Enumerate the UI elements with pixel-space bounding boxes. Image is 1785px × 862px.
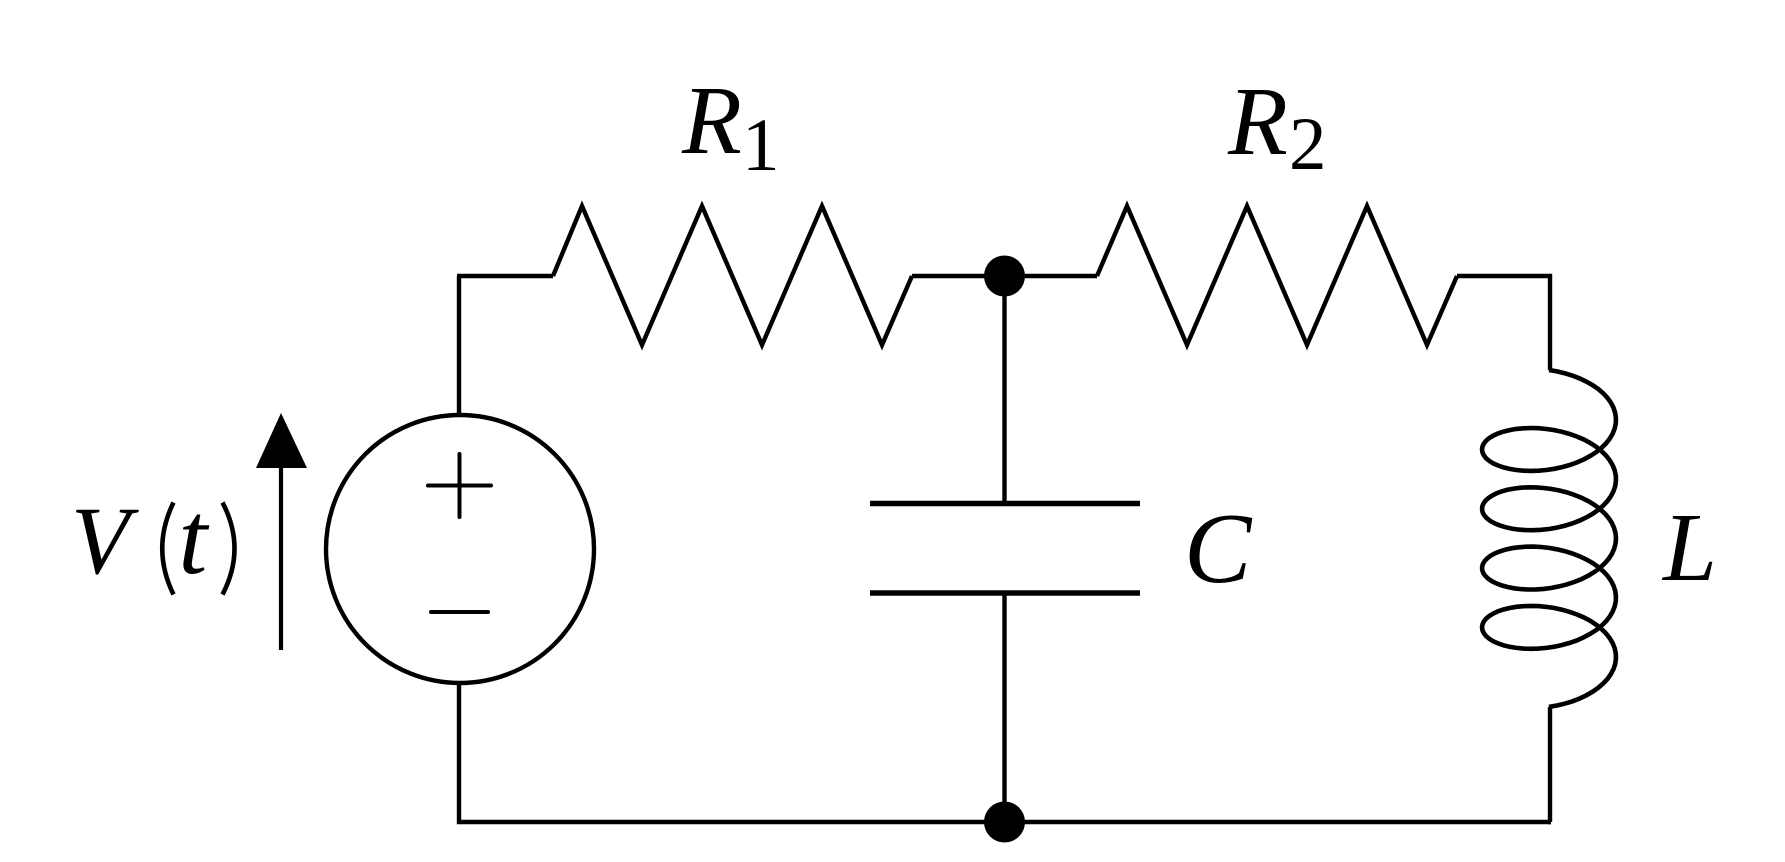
wire: top rail right segment and right drop to inductor	[1457, 276, 1550, 370]
wire: right vertical below inductor to bottom rail	[1550, 707, 1551, 822]
svg-text:2: 2	[1289, 103, 1327, 186]
node B junction dot (bottom)	[984, 802, 1025, 843]
current arrow shaft	[279, 466, 283, 650]
svg-text:R: R	[1227, 68, 1288, 176]
plus sign inside source	[428, 454, 491, 517]
node A junction dot (top)	[984, 256, 1025, 297]
capacitor C bottom plate	[870, 590, 1140, 595]
svg-text:t: t	[178, 481, 209, 596]
capacitor C top plate	[870, 501, 1140, 506]
wire: top rail left segment to R1	[457, 274, 553, 278]
resistor R2	[1097, 206, 1457, 345]
resistor R1	[553, 206, 912, 345]
label V(t): close paren	[223, 503, 235, 595]
capacitor C top lead	[1002, 276, 1006, 503]
minus sign inside source	[431, 610, 488, 614]
label V(t): open paren	[162, 503, 173, 595]
svg-text:R: R	[681, 67, 742, 175]
svg-text:C: C	[1184, 492, 1253, 604]
capacitor C bottom lead	[1002, 593, 1006, 822]
inductor L coil	[1482, 370, 1616, 707]
wire: bottom rail	[459, 684, 1551, 822]
svg-text:L: L	[1661, 494, 1717, 601]
wire: top rail between R1 and R2 through node	[912, 274, 1097, 278]
svg-text:V: V	[71, 487, 139, 594]
voltage source V(t) circle	[326, 415, 594, 683]
wire: left vertical from source top to top rail	[457, 276, 461, 413]
svg-text:1: 1	[742, 104, 780, 187]
current arrow head	[256, 413, 307, 468]
